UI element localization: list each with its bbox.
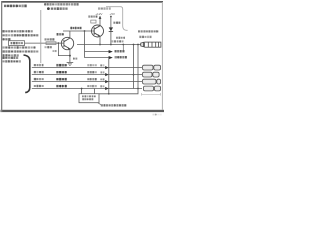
left text line 3 xyxy=(3,38,11,40)
row 3 label mid xyxy=(56,78,67,81)
transistor Q1 2SC1815 xyxy=(61,37,73,49)
right note text xyxy=(138,30,158,32)
node bus x108 bottom xyxy=(108,93,110,95)
arrow wire 1 xyxy=(85,51,110,53)
row 2 label left xyxy=(34,71,44,73)
LED D1 xyxy=(109,27,113,31)
node LED top xyxy=(110,16,112,18)
Q2 emitter arrow xyxy=(98,34,100,36)
node x138 xyxy=(137,44,139,46)
Q1 emitter arrow xyxy=(68,47,70,49)
row 2 wire xyxy=(32,74,142,76)
wire emitter Q2 xyxy=(99,36,101,45)
row 4 wire xyxy=(32,88,142,90)
row 3 wire xyxy=(32,81,142,83)
vertical guide line xyxy=(40,10,42,63)
title text top-left xyxy=(4,5,27,8)
plug label xyxy=(140,36,152,38)
D1 label xyxy=(114,22,121,24)
row 4 label right xyxy=(87,85,97,87)
left text line 2 xyxy=(3,34,39,36)
node LED bottom xyxy=(110,44,112,46)
wire emitter Q1 down xyxy=(69,49,71,62)
wire base Q1 xyxy=(25,42,64,44)
node x123 xyxy=(122,44,124,46)
jack J1 xyxy=(143,65,161,70)
label below R1 xyxy=(45,46,52,48)
jack J3 xyxy=(143,79,161,84)
svg-text:+12V: +12V xyxy=(95,12,103,16)
row 2 tick xyxy=(100,71,104,73)
battery box B1 xyxy=(79,94,99,103)
input connector box xyxy=(9,41,25,46)
callout leader line xyxy=(106,7,128,31)
row 4 label left xyxy=(34,85,44,87)
row 4 label mid xyxy=(56,85,67,87)
stereo mini plug P1 xyxy=(141,42,161,47)
branch value faint xyxy=(53,50,57,52)
row 3 label left xyxy=(34,78,44,80)
node bus row4 xyxy=(137,88,139,90)
bus wire x108 xyxy=(108,58,110,94)
emitter stub label xyxy=(73,58,77,60)
node emitter Q2 xyxy=(99,44,101,46)
node bus row2 xyxy=(133,74,135,76)
arrowhead 2 xyxy=(109,56,113,59)
row 1 tick xyxy=(100,64,104,66)
R1 label above xyxy=(45,38,55,40)
row 1 label left xyxy=(34,64,44,66)
left text line 1 xyxy=(3,30,33,32)
row 1 label right xyxy=(87,64,97,66)
faint note xyxy=(98,7,111,9)
R2 value xyxy=(88,15,97,17)
row 2 label mid xyxy=(56,71,67,73)
wire LED branch xyxy=(110,16,112,45)
left text line 8 xyxy=(3,60,21,62)
power arrow xyxy=(99,16,102,19)
wire branch down xyxy=(58,43,70,56)
node x133 xyxy=(133,44,135,46)
cable brace xyxy=(24,55,30,93)
arrow2 label xyxy=(115,56,128,58)
resistor R2 xyxy=(91,20,96,23)
row 4 tick xyxy=(100,85,104,87)
wire node row to Q2 base xyxy=(63,30,95,32)
node emitter junction xyxy=(69,55,71,57)
jack J4 xyxy=(143,86,160,91)
left text line 4 xyxy=(3,46,36,48)
faint credit xyxy=(153,114,162,116)
resistor R1 on base wire xyxy=(46,42,56,45)
jack J2 xyxy=(143,72,160,77)
transistor Q2 2SC1815 xyxy=(92,25,104,37)
ground xyxy=(67,62,74,65)
arrow1 label xyxy=(115,50,125,52)
arrow wire 2 xyxy=(85,57,110,59)
node base junction xyxy=(58,42,60,44)
wire main output xyxy=(77,44,141,46)
svg-text:+5V: +5V xyxy=(109,12,116,16)
wire node A down xyxy=(84,31,86,58)
B1 lead 1 xyxy=(81,89,83,94)
stub x123 xyxy=(122,45,124,51)
left text line 5 xyxy=(3,50,39,52)
node A xyxy=(84,30,86,32)
bottom caption xyxy=(101,104,126,106)
value above output wire xyxy=(112,40,124,42)
row 3 tap arrow xyxy=(105,80,108,83)
node lead1 xyxy=(81,88,83,90)
left text line 6 xyxy=(3,54,19,56)
border frame xyxy=(1,1,165,112)
bus wire x138 xyxy=(99,45,138,94)
row 2 label right xyxy=(87,71,97,73)
Q1 label name xyxy=(57,33,64,36)
left text line 7 xyxy=(3,57,19,59)
row 1 tap arrow xyxy=(105,66,108,69)
dimension line under jacks xyxy=(142,93,161,96)
wire collector Q1 xyxy=(69,31,71,37)
row 3 label right xyxy=(87,78,97,80)
B1 inner text xyxy=(82,95,96,97)
value above output wire upper xyxy=(116,37,125,39)
wire collector Q2 xyxy=(99,16,101,25)
note line 1 top-middle xyxy=(44,3,79,5)
row 1 wire xyxy=(32,67,142,69)
row 2 tap arrow xyxy=(105,73,108,76)
row 3 tick xyxy=(100,78,104,80)
Q1 label value xyxy=(70,27,81,29)
B1 leader xyxy=(98,103,103,106)
row 1 label mid xyxy=(56,64,67,67)
row 4 tap arrow xyxy=(105,87,108,90)
bus wire x133 xyxy=(133,45,135,89)
note line 2 bullet xyxy=(47,7,50,10)
arrowhead 1 xyxy=(109,50,113,53)
B1 lead 2 xyxy=(94,89,96,94)
